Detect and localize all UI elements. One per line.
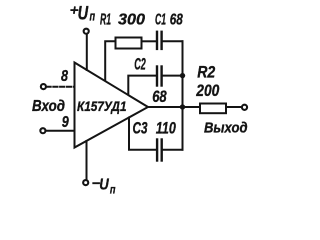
junction node at C2/rail — [180, 73, 185, 78]
capacitor C1 plate right — [160, 32, 162, 49]
svg-text:C1: C1 — [155, 12, 166, 29]
resistor R1 body — [116, 38, 142, 49]
pin 8 terminal circle — [41, 84, 46, 89]
op-amp U1 triangle — [75, 63, 149, 148]
svg-text:68: 68 — [152, 87, 167, 106]
svg-text:К157УД1: К157УД1 — [77, 98, 127, 114]
plus sign of +Un — [71, 9, 77, 11]
svg-text:Вход: Вход — [32, 98, 65, 115]
wire -Un to op-amp bottom edge — [86, 141, 88, 180]
wire +Un to op-amp top edge — [86, 34, 88, 70]
svg-text:68: 68 — [170, 12, 183, 29]
wire C2 to rail — [163, 75, 182, 77]
svg-text:R2: R2 — [197, 63, 215, 81]
pin 9 terminal circle — [40, 128, 45, 133]
svg-text:Выход: Выход — [204, 120, 248, 137]
pin 8 dashed wire — [47, 86, 75, 88]
+Un terminal circle — [84, 29, 89, 34]
wire: pin stub down from bottom edge and C3 branch — [129, 118, 156, 150]
wire R1 to C1 — [142, 40, 156, 42]
resistor R2 body — [200, 104, 226, 114]
wire: pin stub up from top edge and top branch to R1 — [105, 41, 115, 80]
svg-text:U: U — [99, 177, 109, 194]
svg-text:200: 200 — [195, 82, 220, 100]
svg-text:п: п — [90, 9, 96, 24]
-Un terminal circle — [83, 180, 88, 185]
svg-text:п: п — [110, 182, 116, 196]
capacitor C2 plate left — [156, 67, 158, 86]
svg-text:U: U — [78, 4, 89, 25]
svg-text:8: 8 — [61, 68, 68, 85]
wire C1 to right vertical rail — [163, 40, 182, 42]
capacitor C3 plate left — [156, 140, 158, 161]
svg-text:9: 9 — [62, 114, 69, 131]
wire: output from op-amp apex to R2 — [148, 106, 200, 108]
wire R2 to output terminal — [227, 106, 242, 108]
pin 9 wire — [46, 130, 74, 132]
right vertical rail wire — [182, 41, 184, 149]
capacitor C3 plate right — [160, 140, 162, 161]
minus sign of -Un — [93, 182, 99, 184]
capacitor C1 plate left — [156, 32, 158, 49]
svg-text:C2: C2 — [134, 55, 146, 74]
wire C3 to rail — [163, 149, 182, 151]
output terminal circle — [242, 105, 247, 110]
svg-text:300: 300 — [118, 11, 145, 28]
wire: pin stub up from top edge and C2 branch — [128, 76, 155, 95]
svg-text:110: 110 — [156, 118, 176, 137]
svg-text:С3: С3 — [133, 118, 148, 137]
junction node at output/rail — [180, 104, 185, 109]
capacitor C2 plate right — [160, 67, 162, 86]
svg-text:R1: R1 — [100, 11, 111, 28]
